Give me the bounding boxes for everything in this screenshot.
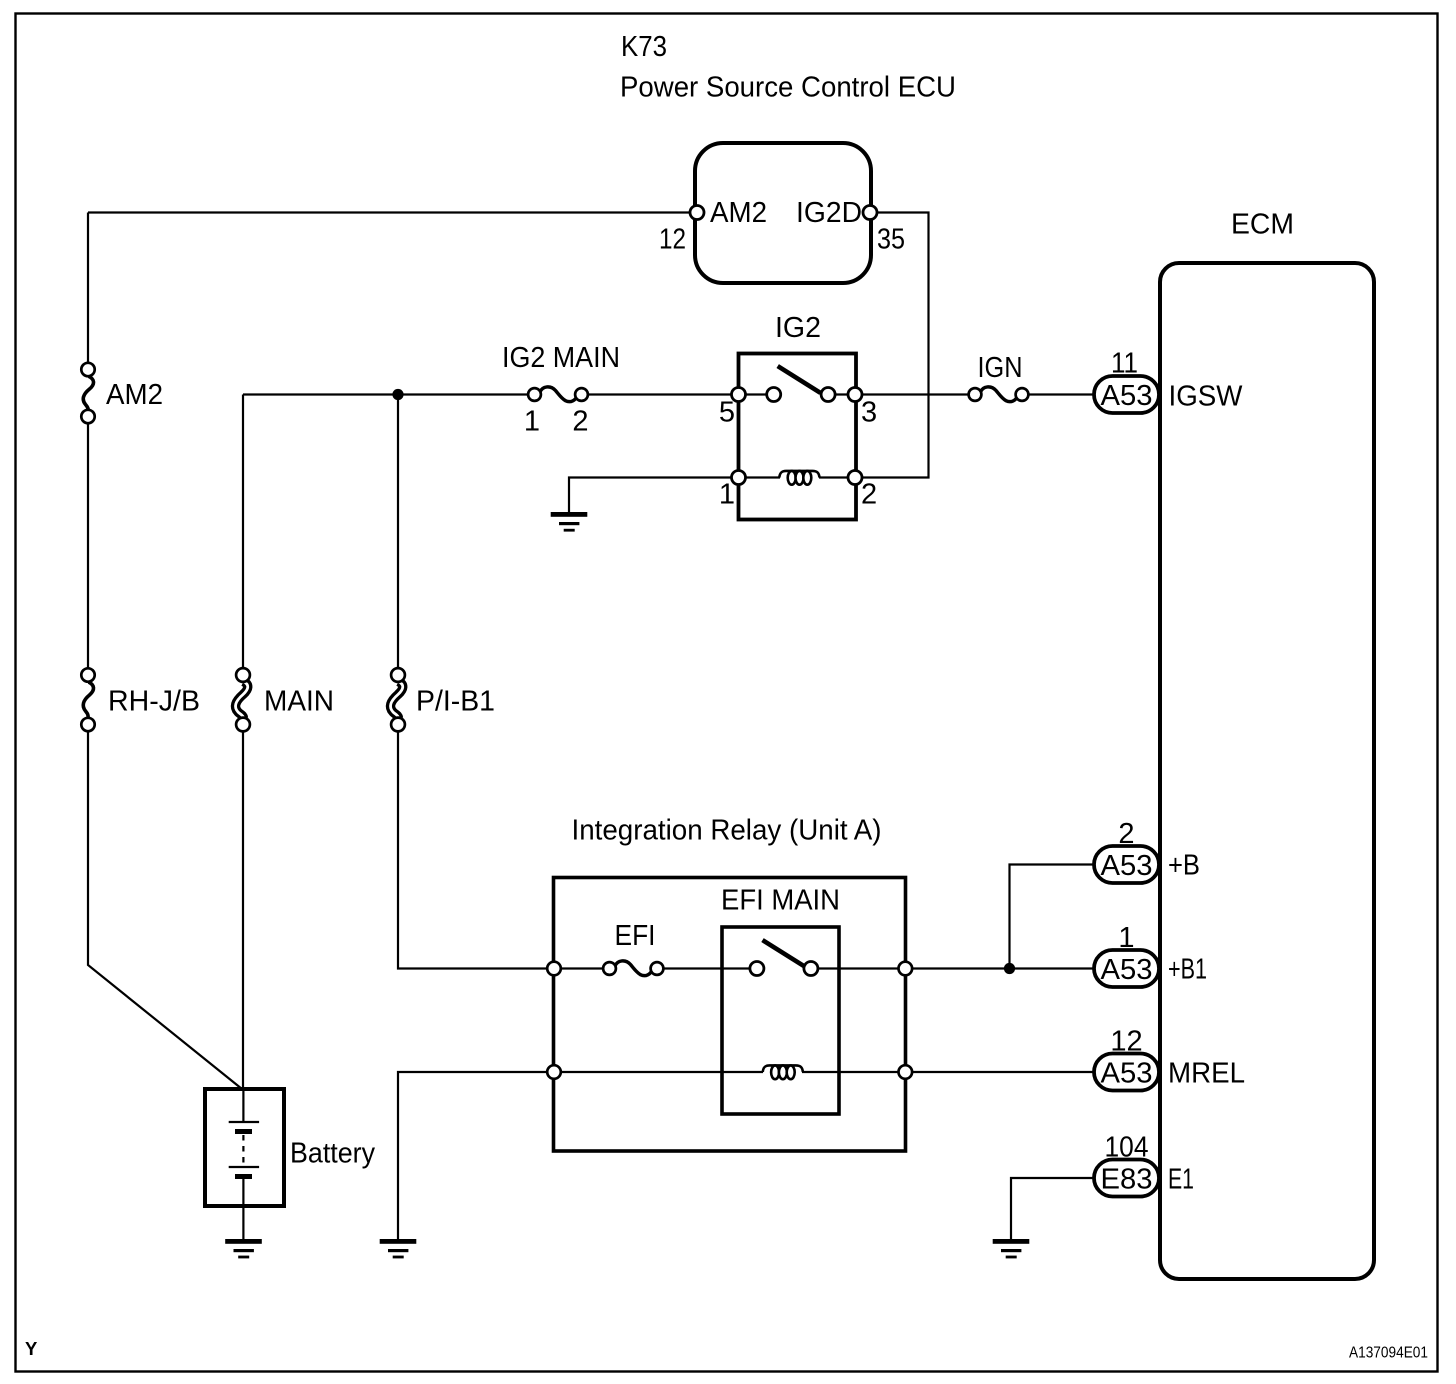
svg-text:A53: A53 — [1101, 850, 1153, 882]
ground: EFI MAIN relay coil return — [380, 1239, 417, 1258]
ECU K73 body — [695, 143, 871, 283]
svg-text:Battery: Battery — [290, 1138, 375, 1170]
svg-text:K73: K73 — [621, 31, 667, 63]
svg-text:5: 5 — [719, 397, 735, 429]
svg-text:12: 12 — [659, 224, 686, 256]
wire: MREL row (A53 12 to relay coil and ground) — [398, 1072, 1094, 1239]
ground: IG2 relay coil — [551, 512, 588, 532]
fuse RH-J/B — [81, 668, 200, 731]
svg-text:35: 35 — [877, 224, 905, 256]
svg-text:IG2 MAIN: IG2 MAIN — [502, 342, 620, 374]
svg-text:P/I-B1: P/I-B1 — [416, 686, 495, 718]
wire: MAIN branch vertical (x=243) — [242, 395, 244, 1090]
connector A53 pin 1 +B1 — [1094, 922, 1207, 987]
svg-text:IGSW: IGSW — [1169, 381, 1244, 413]
connector A53 pin 11 IGSW — [1094, 348, 1243, 414]
svg-text:Y: Y — [25, 1338, 38, 1359]
svg-text:11: 11 — [1111, 348, 1138, 380]
relay EFI MAIN switch contacts — [750, 940, 818, 975]
svg-text:IG2: IG2 — [775, 312, 821, 344]
svg-text:3: 3 — [861, 397, 877, 429]
svg-text:ECM: ECM — [1231, 209, 1294, 241]
fuse IG2 MAIN with pins 1 and 2 — [502, 342, 620, 438]
fusible link MAIN — [235, 668, 334, 731]
svg-text:IGN: IGN — [978, 352, 1023, 384]
wire: battery feed to K73 AM2 pin (top horizontal) — [88, 211, 697, 213]
svg-text:2: 2 — [1118, 818, 1134, 850]
wire: P/I-B1 branch vertical (x=398) to integration relay — [398, 395, 554, 969]
relay IG2 body — [739, 354, 857, 520]
svg-text:+B1: +B1 — [1168, 954, 1207, 986]
svg-text:Integration Relay (Unit A): Integration Relay (Unit A) — [572, 815, 882, 847]
svg-text:12: 12 — [1110, 1026, 1142, 1058]
svg-text:1: 1 — [524, 406, 540, 438]
wire: E1 to ground — [1011, 1178, 1094, 1239]
wire: EFI row inside integration relay — [554, 967, 905, 969]
label: K73 Power Source Control ECU title — [620, 31, 956, 104]
connector A53 pin 2 +B — [1094, 818, 1200, 883]
ground: battery negative — [225, 1239, 262, 1258]
pin 12 AM2 of K73 — [659, 197, 767, 256]
svg-text:A53: A53 — [1101, 1058, 1153, 1090]
svg-text:1: 1 — [719, 479, 735, 511]
svg-text:1: 1 — [1118, 922, 1134, 954]
svg-text:+B: +B — [1168, 850, 1200, 882]
wire: IG2 coil pin 1 to ground — [569, 478, 739, 514]
relay IG2 pin 3 — [848, 388, 877, 429]
wire: IG2D pin 35 to IG2 relay coil pin 2 — [855, 213, 929, 478]
svg-text:IG2D: IG2D — [796, 197, 862, 229]
fuse IGN — [969, 352, 1029, 402]
junction: +B branch node — [1004, 963, 1015, 974]
svg-text:2: 2 — [572, 406, 588, 438]
relay IG2 coil — [739, 471, 856, 485]
svg-text:AM2: AM2 — [106, 379, 163, 411]
fuse AM2 — [81, 363, 163, 423]
connector E83 pin 104 E1 — [1094, 1132, 1194, 1197]
relay EFI MAIN coil — [763, 1065, 803, 1079]
junction: node at P/I-B1 branch — [392, 389, 403, 400]
wire: main ignition row y=394.5 (battery junction to ECM IGSW) — [243, 393, 1094, 395]
ground: ECM E1 — [993, 1239, 1030, 1258]
svg-text:A53: A53 — [1101, 380, 1153, 412]
svg-text:Power Source Control ECU: Power Source Control ECU — [620, 72, 956, 104]
relay EFI MAIN body — [722, 927, 839, 1114]
relay IG2 pin 2 — [848, 471, 877, 511]
svg-text:MREL: MREL — [1168, 1058, 1245, 1090]
svg-text:E83: E83 — [1101, 1164, 1153, 1196]
integration relay Unit A box — [554, 878, 906, 1152]
fuse EFI — [603, 920, 663, 976]
wire: +B branch up to A53 pin 2 — [1010, 865, 1095, 969]
relay IG2 switch contacts — [767, 366, 835, 401]
integration relay border pin (coil row left) — [547, 1065, 561, 1079]
svg-text:EFI: EFI — [615, 920, 656, 952]
pin 35 IG2D of K73 — [796, 197, 905, 256]
svg-text:E1: E1 — [1168, 1164, 1194, 1196]
svg-text:A53: A53 — [1101, 954, 1153, 986]
fusible link P/I-B1 — [390, 668, 495, 731]
svg-text:A137094E01: A137094E01 — [1349, 1345, 1428, 1362]
svg-text:MAIN: MAIN — [264, 686, 334, 718]
wire: relay output to ECM +B1 — [905, 967, 1094, 969]
svg-text:104: 104 — [1105, 1132, 1149, 1164]
integration relay border pin (coil row right) — [899, 1065, 913, 1079]
wire: left vertical AM2 branch (x=88) — [88, 213, 242, 1090]
svg-text:AM2: AM2 — [710, 197, 767, 229]
svg-text:RH-J/B: RH-J/B — [108, 686, 200, 718]
ECM body — [1160, 263, 1374, 1279]
svg-text:2: 2 — [861, 479, 877, 511]
battery BAT — [205, 1089, 375, 1239]
connector A53 pin 12 MREL — [1094, 1026, 1245, 1091]
relay IG2 pin 1 — [719, 471, 746, 511]
integration relay border pin (contact row left) — [547, 962, 561, 976]
svg-text:EFI MAIN: EFI MAIN — [721, 885, 840, 917]
relay IG2 pin 5 — [719, 388, 746, 429]
integration relay border pin (contact row right) — [899, 962, 913, 976]
